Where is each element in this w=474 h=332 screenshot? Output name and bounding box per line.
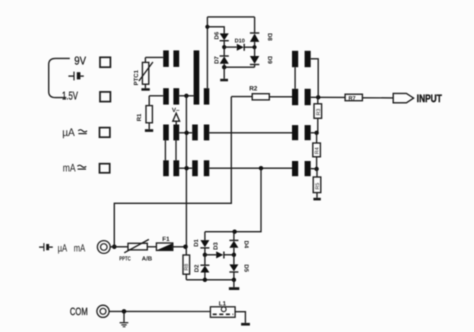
wire links rows C-D left pair [165, 140, 176, 160]
node row D bus [184, 166, 188, 170]
connector INPUT [393, 93, 413, 102]
label uA mA [58, 242, 86, 254]
wire L1 to ground [235, 312, 245, 323]
wire row D middle [179, 167, 192, 169]
svg-text:mA: mA [63, 162, 76, 174]
resistor PTC1 [139, 57, 153, 88]
wire row C middle [179, 132, 192, 134]
svg-text:R1: R1 [136, 113, 143, 121]
svg-text:D5: D5 [243, 264, 250, 272]
wire row C to right column [209, 132, 292, 134]
wire bus vertical [185, 96, 187, 247]
jack J2 COM [97, 305, 109, 317]
node bridge feed [259, 166, 263, 170]
svg-text:R3: R3 [316, 109, 322, 116]
wire PPTC to F1 [147, 246, 156, 248]
ground below bridge [229, 280, 239, 290]
wire bridge bottom rail [186, 279, 234, 281]
node D6 branch [205, 25, 209, 29]
wire F1 to node [173, 246, 186, 248]
wire PTC1 to row A [145, 56, 163, 58]
wire to D6 [207, 27, 224, 34]
node row D right [314, 167, 318, 171]
svg-text:D1: D1 [193, 238, 200, 246]
resistor R5 [313, 169, 321, 198]
node bridge top [232, 230, 236, 234]
resistor R8 [183, 247, 190, 280]
svg-text:D2: D2 [193, 264, 200, 272]
wire jack to PPTC [110, 246, 128, 248]
wire bridge feed down [205, 168, 261, 232]
switch bars right column row A [292, 51, 311, 67]
wire R1 to row B [149, 95, 163, 97]
svg-text:PPTC: PPTC [119, 256, 131, 263]
wire row B middle [179, 95, 193, 97]
svg-text:D6: D6 [213, 31, 220, 39]
svg-text:R7: R7 [349, 96, 356, 102]
wire COM to L1 [109, 310, 210, 312]
diode box top edge [207, 16, 254, 18]
earth ground at COM [120, 311, 129, 327]
node D10 cathode [252, 45, 256, 49]
svg-text:R4: R4 [315, 147, 321, 154]
svg-text:µA: µA [58, 242, 68, 254]
resistor R1 [146, 96, 152, 129]
svg-text:R2: R2 [249, 85, 258, 92]
diode box bottom edge [224, 66, 254, 68]
node box bottom [222, 65, 226, 69]
net arrow V- [172, 107, 180, 124]
diode D2 [200, 255, 209, 280]
switch bars middle column row C [163, 125, 209, 141]
resistor PPTC [124, 239, 149, 252]
wire row B right column to R7 [311, 96, 345, 98]
svg-text:COM: COM [70, 306, 88, 318]
node bridge right mid [232, 253, 236, 257]
wire link right column rows A-B [294, 67, 296, 89]
switch bars middle column row A [163, 50, 179, 67]
svg-text:A/B: A/B [142, 256, 153, 263]
node bridge bottom right [232, 278, 236, 282]
diode box right rail [254, 17, 256, 33]
svg-text:L1: L1 [219, 300, 227, 307]
terminator below R5 [313, 198, 320, 201]
battery icon at uA mA jack [39, 243, 53, 251]
terminator below PTC1 [141, 88, 149, 91]
label uA acdc [62, 127, 75, 139]
node COM [122, 309, 127, 314]
svg-text:D4: D4 [243, 241, 250, 249]
node row C right [314, 131, 318, 135]
ground at L1 [241, 323, 250, 326]
pad 1.5V [100, 92, 110, 102]
switch bars right column row C [292, 125, 311, 140]
wire row D right stub [311, 168, 317, 170]
diode D5 [229, 255, 238, 280]
switch bars right column row B [292, 89, 311, 105]
wire row C right stub [311, 132, 317, 134]
node row B bus [184, 94, 188, 98]
svg-text:D8: D8 [266, 33, 273, 41]
battery B1 [68, 72, 83, 81]
svg-text:PTC1: PTC1 [133, 69, 140, 85]
diode D4 [229, 232, 238, 255]
wire R7 to INPUT [362, 97, 393, 99]
wire diode box left rail to bar [206, 17, 208, 88]
svg-text:mA: mA [74, 242, 85, 254]
switch bars middle column row B [163, 88, 209, 104]
svg-text:R5: R5 [315, 183, 321, 190]
node F1 output [183, 245, 188, 250]
inductor L1 [210, 307, 235, 318]
svg-text:µA: µA [62, 127, 75, 139]
terminator below R1 [145, 129, 153, 132]
switch tall bar rows A-B [194, 50, 200, 104]
pad uA [100, 128, 110, 138]
resistor R3 [314, 97, 322, 133]
svg-text:1.5V: 1.5V [62, 90, 78, 102]
node jack J1 [112, 245, 117, 250]
node D10 anode [222, 45, 226, 49]
diode D1 [200, 232, 209, 255]
wire jack riser [114, 97, 231, 247]
node bridge bottom left [203, 278, 207, 282]
wire right column row A jog [311, 59, 319, 98]
svg-text:F1: F1 [162, 236, 170, 243]
diode D9 [250, 47, 259, 67]
terminator below diode box [220, 67, 228, 81]
battery bracket [49, 58, 70, 97]
node R3 top [316, 95, 320, 99]
resistor R2 [231, 94, 292, 100]
resistor R4 [313, 133, 321, 169]
svg-text:9V: 9V [74, 56, 86, 68]
resistor R7 [345, 94, 362, 102]
node bridge left mid [203, 253, 207, 257]
wire row D to right column [209, 167, 292, 169]
diode D8 [250, 33, 259, 47]
fuse F1 [156, 243, 172, 250]
pad mA [100, 164, 110, 173]
svg-text:D3: D3 [213, 242, 220, 250]
svg-text:R8: R8 [184, 264, 190, 271]
switch bars right column row D [292, 161, 311, 176]
switch bars middle column row D [163, 160, 209, 176]
diode D7 [220, 47, 229, 67]
node row C bus [184, 131, 188, 135]
diode D6 [220, 33, 229, 47]
jack J1 uA/mA [97, 241, 110, 254]
diode D10 [224, 44, 254, 51]
diode D3 [205, 251, 234, 258]
label mA acdc [63, 162, 76, 174]
svg-text:D10: D10 [235, 38, 245, 44]
svg-text:INPUT: INPUT [417, 93, 442, 105]
svg-text:D9: D9 [266, 56, 273, 64]
svg-text:D7: D7 [213, 56, 220, 64]
pad 9V [100, 57, 110, 67]
